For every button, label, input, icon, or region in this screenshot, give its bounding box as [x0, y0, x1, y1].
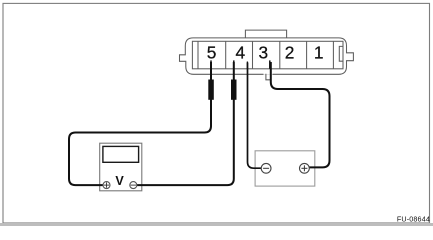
cell divider a — [197, 41, 199, 69]
cell divider d — [279, 41, 281, 69]
pin 4 contact tick — [233, 60, 235, 68]
wire battery minus to pin4b — [248, 63, 262, 169]
test probe on pin4 wire — [231, 80, 237, 100]
svg-text:4: 4 — [235, 42, 245, 62]
svg-text:2: 2 — [285, 42, 295, 62]
battery minus terminal — [261, 163, 271, 173]
svg-text:V: V — [115, 174, 124, 188]
voltmeter display — [103, 146, 139, 162]
wire pin5 to voltmeter plus — [69, 62, 211, 185]
cell divider c — [252, 41, 254, 69]
wire pin4 to voltmeter minus — [137, 62, 234, 185]
test probe on pin5 wire — [208, 80, 214, 100]
pin 3 contact tick — [269, 60, 271, 68]
pin 5 contact tick — [210, 60, 212, 68]
cell divider b — [225, 41, 227, 69]
svg-text:3: 3 — [258, 42, 268, 62]
svg-text:5: 5 — [207, 42, 217, 62]
connector exit notch — [264, 73, 273, 75]
voltmeter plus terminal — [103, 182, 110, 189]
bottom shadow band — [0, 223, 433, 226]
battery plus terminal — [300, 163, 310, 173]
connector J1 outer housing with side lock tabs — [180, 30, 354, 74]
svg-text:1: 1 — [314, 42, 324, 62]
wire pin3 to battery plus — [271, 62, 330, 167]
cell divider e — [306, 41, 308, 69]
connector cell row — [192, 41, 343, 69]
svg-text:FU-08644: FU-08644 — [397, 215, 430, 224]
connector key notch — [339, 46, 343, 61]
cell divider f — [332, 41, 334, 69]
connector top tab — [245, 30, 286, 38]
voltmeter V1 body — [100, 143, 142, 191]
battery BAT body — [255, 151, 315, 186]
voltmeter minus terminal — [130, 182, 137, 189]
pin 4b contact tick — [246, 62, 248, 69]
